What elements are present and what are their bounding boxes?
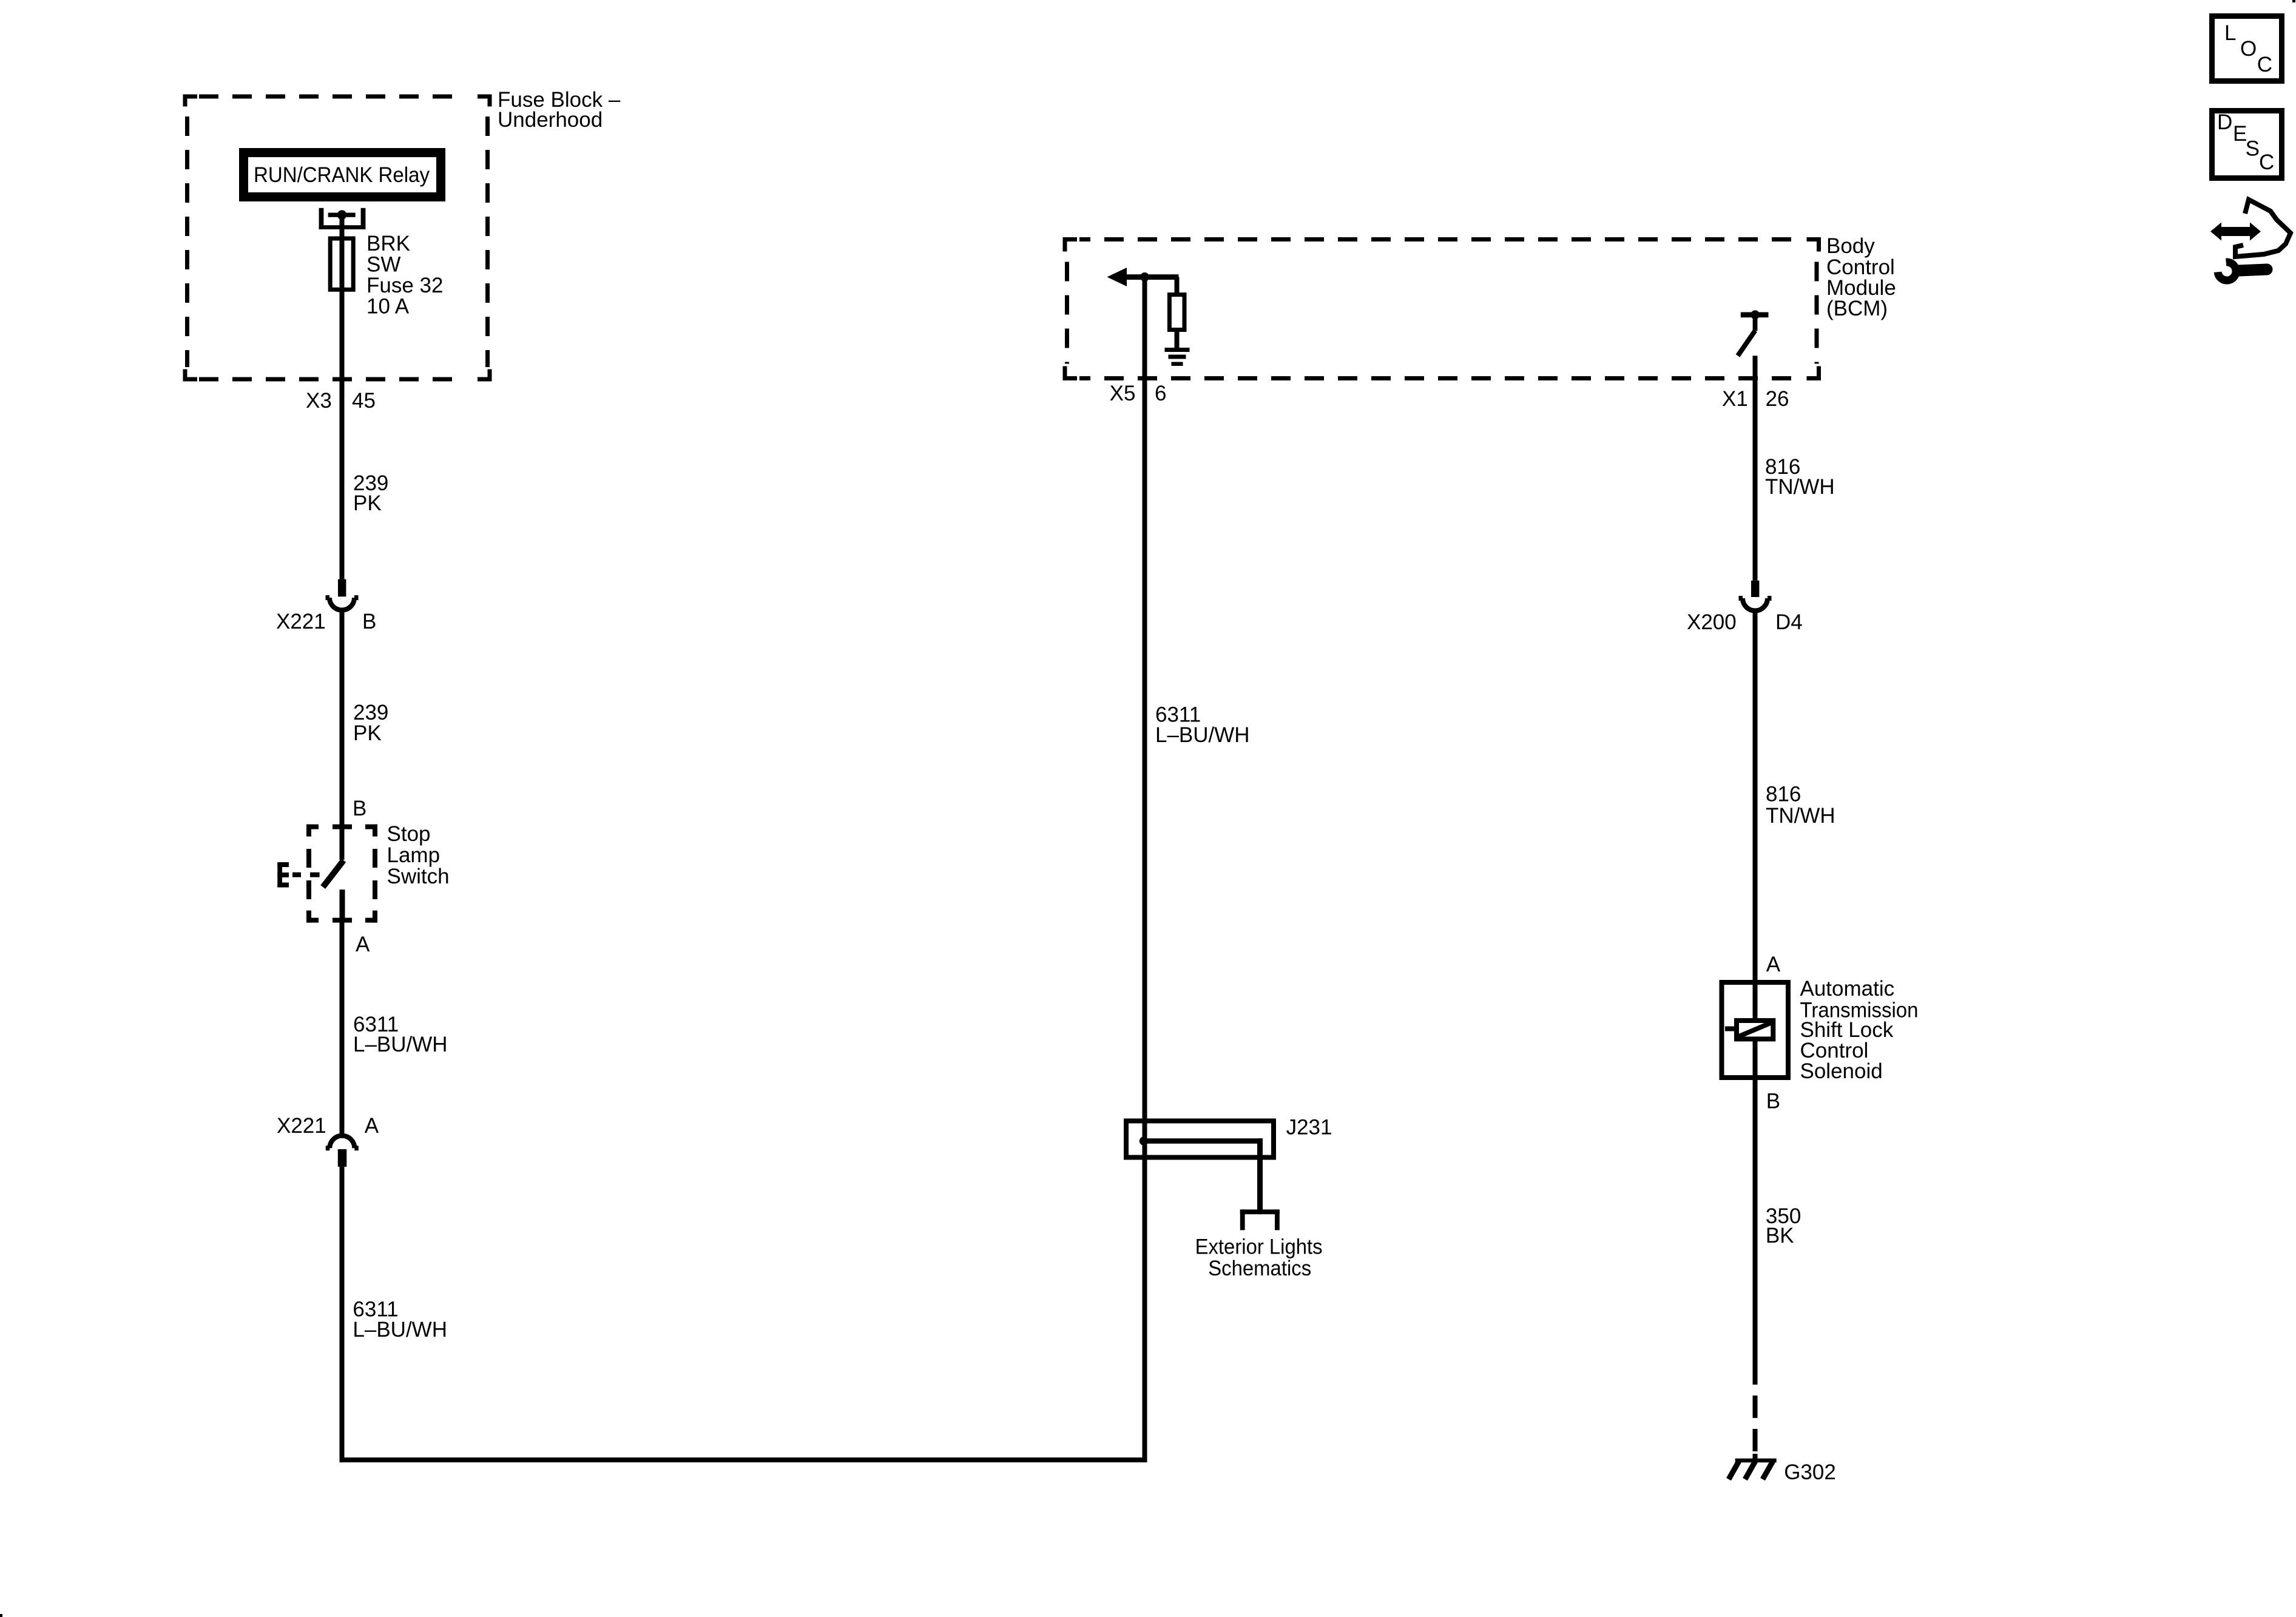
svg-text:RUN/CRANK Relay: RUN/CRANK Relay bbox=[254, 163, 430, 187]
svg-text:D: D bbox=[2217, 110, 2232, 134]
svg-text:Lamp: Lamp bbox=[387, 843, 441, 867]
wire: bottom horizontal run bbox=[340, 1457, 1147, 1462]
wire: X221-A down left column bbox=[340, 1167, 345, 1462]
svg-text:Underhood: Underhood bbox=[498, 108, 603, 132]
LOC navigation box bbox=[2212, 16, 2282, 81]
resistor R (BCM internal) bbox=[1169, 295, 1184, 330]
wire label 816 TN/WH (upper) bbox=[1765, 455, 1835, 499]
label: Exterior Lights Schematics bbox=[1195, 1235, 1323, 1280]
svg-text:D4: D4 bbox=[1775, 610, 1803, 634]
svg-text:26: 26 bbox=[1766, 387, 1789, 411]
wire label 6311 L-BU/WH (left) bbox=[353, 1013, 448, 1056]
svg-text:Solenoid: Solenoid bbox=[1800, 1059, 1883, 1083]
page corner marks bbox=[2292, 0, 2295, 2]
svg-text:L: L bbox=[2224, 21, 2236, 45]
wire label 239 PK (upper) bbox=[353, 471, 388, 515]
svg-text:C: C bbox=[2257, 53, 2272, 76]
wire label 6311 L-BU/WH (middle) bbox=[1155, 703, 1250, 748]
pin labels X1 26 bbox=[1722, 387, 1789, 411]
fuse F32: BRK SW Fuse 32 10 A bbox=[330, 232, 443, 319]
wire label 6311 L-BU/WH (lower left) bbox=[353, 1298, 447, 1342]
svg-text:J231: J231 bbox=[1286, 1116, 1332, 1139]
svg-text:O: O bbox=[2240, 37, 2257, 61]
BCM internal signal arrow bbox=[1107, 268, 1179, 286]
svg-text:PK: PK bbox=[353, 721, 382, 745]
svg-text:X221: X221 bbox=[277, 1114, 326, 1138]
svg-text:Automatic: Automatic bbox=[1800, 977, 1895, 1001]
svg-text:G302: G302 bbox=[1784, 1460, 1836, 1484]
wire label 350 BK bbox=[1766, 1204, 1801, 1247]
svg-text:X3: X3 bbox=[306, 389, 332, 413]
labels X221 A bbox=[277, 1114, 379, 1138]
chassis ground G302 bbox=[1729, 1459, 1777, 1479]
connector X221 pin A (female dome + male pin) bbox=[326, 1136, 359, 1167]
svg-text:SW: SW bbox=[366, 253, 400, 277]
junction dot at BCM pin 6 net bbox=[1140, 272, 1149, 282]
svg-text:BK: BK bbox=[1766, 1224, 1794, 1247]
BCM output driver switch (to X1-26) bbox=[1738, 310, 1769, 356]
svg-text:TN/WH: TN/WH bbox=[1766, 804, 1835, 828]
svg-text:X200: X200 bbox=[1687, 610, 1737, 634]
ground symbol (BCM internal) bbox=[1165, 348, 1190, 366]
svg-text:X1: X1 bbox=[1722, 387, 1748, 411]
svg-text:S: S bbox=[2246, 137, 2260, 161]
svg-text:X221: X221 bbox=[276, 610, 326, 633]
svg-text:816: 816 bbox=[1766, 782, 1801, 806]
label: Stop Lamp Switch bbox=[387, 822, 450, 888]
wire: fuse to X221-B (239 PK) bbox=[340, 215, 345, 579]
svg-text:Switch: Switch bbox=[387, 865, 450, 888]
fuse block - underhood dashed box bbox=[185, 96, 490, 379]
svg-text:A: A bbox=[356, 933, 370, 956]
svg-text:B: B bbox=[362, 610, 376, 633]
body control module (BCM) dashed box bbox=[1065, 240, 1819, 379]
label: Fuse Block - Underhood bbox=[498, 88, 621, 132]
hand/service navigation icon bbox=[2210, 200, 2291, 280]
node: relay output with junction dot bbox=[328, 210, 356, 220]
connector X221 pin B (male pin + female cup) bbox=[326, 579, 359, 610]
wire: X221-B to stop lamp switch (239 PK) bbox=[340, 610, 345, 860]
BCM internal pull-up branch wire bbox=[1175, 277, 1180, 295]
labels X221 B bbox=[276, 610, 376, 633]
svg-text:A: A bbox=[1766, 953, 1781, 976]
wire: solenoid B down (350 BK) bbox=[1753, 1080, 1758, 1385]
svg-text:L–BU/WH: L–BU/WH bbox=[1155, 723, 1250, 747]
svg-text:Stop: Stop bbox=[387, 822, 431, 846]
wire: BCM X1-26 down to X200 (816 TN/WH) bbox=[1753, 356, 1758, 581]
svg-text:BRK: BRK bbox=[366, 232, 410, 255]
svg-text:B: B bbox=[353, 797, 366, 820]
svg-text:PK: PK bbox=[353, 491, 382, 515]
svg-text:45: 45 bbox=[352, 389, 376, 413]
pin labels X5 6 bbox=[1110, 382, 1167, 405]
svg-text:6: 6 bbox=[1155, 382, 1166, 405]
svg-text:L–BU/WH: L–BU/WH bbox=[353, 1033, 448, 1056]
wire: BCM X5-6 down middle column (6311 L-BU/WH) bbox=[1143, 277, 1147, 1463]
off-page connector to Exterior Lights Schematics bbox=[1240, 1209, 1280, 1230]
svg-text:(BCM): (BCM) bbox=[1826, 297, 1888, 320]
svg-text:Body: Body bbox=[1826, 234, 1875, 258]
J231 internal branch wire bbox=[1144, 1138, 1263, 1214]
connector X200 pin D4 (male pin + female cup) bbox=[1739, 581, 1772, 611]
svg-text:C: C bbox=[2259, 150, 2274, 174]
wire: switch to X221-A (6311 L-BU/WH) bbox=[340, 890, 345, 1133]
relay output terminal bracket bbox=[319, 208, 366, 229]
wire label 239 PK (lower) bbox=[353, 701, 388, 745]
pin labels X3 45 bbox=[306, 389, 376, 413]
svg-text:Fuse 32: Fuse 32 bbox=[366, 274, 443, 297]
DESC navigation box bbox=[2212, 110, 2282, 178]
svg-text:Schematics: Schematics bbox=[1208, 1257, 1311, 1280]
splice pack J231 box bbox=[1126, 1121, 1274, 1157]
svg-text:Exterior Lights: Exterior Lights bbox=[1195, 1235, 1323, 1258]
svg-text:A: A bbox=[365, 1114, 379, 1138]
label: Body Control Module (BCM) bbox=[1826, 234, 1896, 320]
relay K: RUN/CRANK Relay box bbox=[244, 153, 441, 197]
mechanical actuator E bracket bbox=[277, 862, 319, 888]
svg-text:10 A: 10 A bbox=[366, 295, 410, 319]
svg-text:B: B bbox=[1766, 1090, 1780, 1113]
svg-text:TN/WH: TN/WH bbox=[1765, 475, 1835, 499]
wire: resistor to internal ground bbox=[1175, 332, 1180, 348]
label: Automatic Transmission Shift Lock Control Solenoid bbox=[1800, 977, 1919, 1083]
svg-text:X5: X5 bbox=[1110, 382, 1136, 405]
svg-text:L–BU/WH: L–BU/WH bbox=[353, 1318, 447, 1342]
dashed wire segment to ground bbox=[1753, 1396, 1758, 1459]
junction dot in J231 bbox=[1140, 1136, 1148, 1145]
wire: X200 to solenoid (816 TN/WH) bbox=[1753, 610, 1758, 981]
stop lamp switch S1 dashed box bbox=[306, 825, 377, 923]
wire label 816 TN/WH (lower) bbox=[1766, 782, 1835, 828]
labels X200 D4 bbox=[1687, 610, 1803, 634]
switch arm (open contact) bbox=[323, 829, 345, 922]
solenoid L1: Automatic Transmission Shift Lock Control Solenoid bbox=[1722, 981, 1789, 1080]
